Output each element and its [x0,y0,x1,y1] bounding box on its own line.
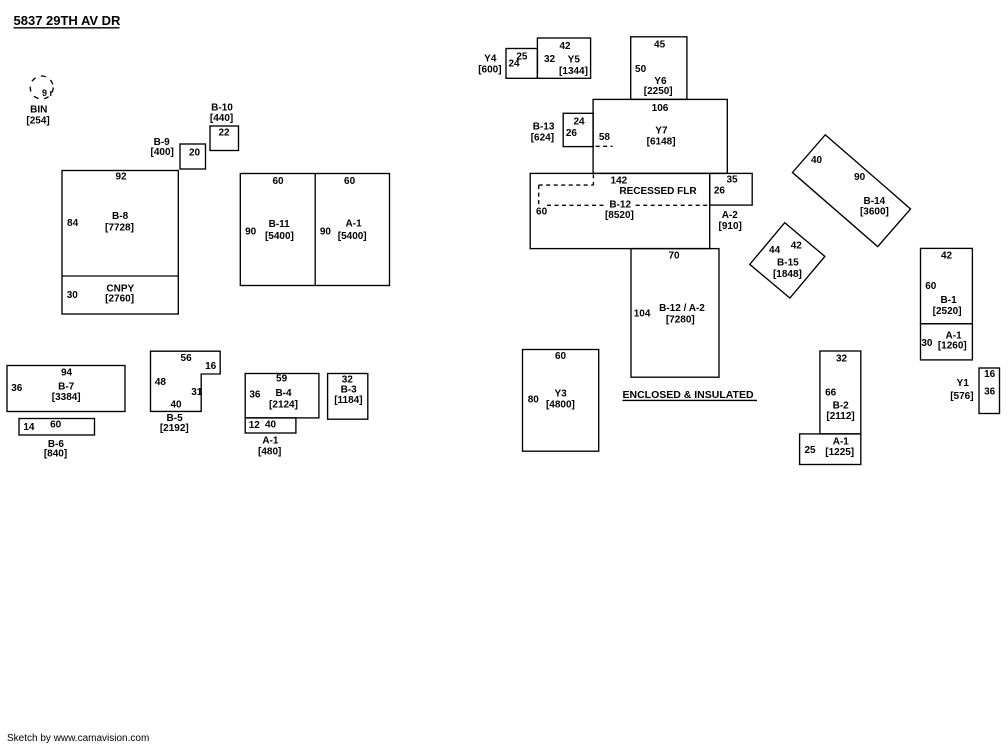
svg-text:[2250]: [2250] [644,86,673,97]
svg-text:BIN: BIN [30,105,47,116]
svg-text:31: 31 [191,387,203,398]
svg-text:60: 60 [536,206,548,217]
svg-text:80: 80 [528,394,540,405]
svg-text:[1225]: [1225] [825,447,854,458]
svg-text:45: 45 [654,40,666,51]
svg-text:[624]: [624] [531,132,554,143]
svg-text:[2112]: [2112] [826,411,854,422]
svg-text:9 r: 9 r [42,88,54,98]
svg-text:90: 90 [320,226,332,237]
svg-text:40: 40 [170,399,182,410]
svg-text:66: 66 [825,387,837,398]
svg-text:14: 14 [23,422,35,433]
svg-text:[4800]: [4800] [546,399,575,410]
svg-text:B-13: B-13 [533,121,555,132]
svg-text:A-2: A-2 [722,210,739,221]
svg-text:RECESSED FLR: RECESSED FLR [619,186,697,197]
svg-text:[2192]: [2192] [160,423,189,434]
svg-text:58: 58 [599,132,611,143]
svg-text:32: 32 [836,354,848,365]
svg-text:B-11: B-11 [269,219,291,230]
svg-text:[3384]: [3384] [52,392,81,403]
svg-text:[910]: [910] [719,221,742,232]
svg-text:[7280]: [7280] [666,314,695,325]
svg-text:A-1: A-1 [833,436,850,447]
svg-text:[254]: [254] [26,116,49,127]
svg-text:60: 60 [272,176,284,187]
svg-text:B-3: B-3 [341,385,358,396]
svg-text:Sketch by www.camavision.com: Sketch by www.camavision.com [7,733,149,744]
svg-text:35: 35 [726,175,738,186]
svg-text:42: 42 [791,241,803,252]
svg-text:Y5: Y5 [568,55,581,66]
svg-text:50: 50 [635,64,647,75]
svg-text:[1344]: [1344] [559,66,588,77]
svg-text:90: 90 [245,226,257,237]
svg-text:[2520]: [2520] [933,306,962,317]
svg-text:44: 44 [769,245,781,256]
svg-text:[1184]: [1184] [334,395,362,406]
svg-text:[840]: [840] [44,449,67,460]
svg-text:142: 142 [611,176,628,187]
svg-text:36: 36 [11,383,23,394]
svg-text:26: 26 [714,185,726,196]
svg-text:Y4: Y4 [484,54,497,65]
svg-text:B-12 / A-2: B-12 / A-2 [659,303,705,314]
svg-text:Y7: Y7 [655,126,668,137]
svg-text:ENCLOSED & INSULATED: ENCLOSED & INSULATED [623,389,754,401]
svg-text:104: 104 [634,308,651,319]
svg-text:16: 16 [984,369,996,380]
svg-text:[1260]: [1260] [938,341,967,352]
svg-text:[3600]: [3600] [860,206,889,217]
svg-text:20: 20 [189,148,201,159]
svg-text:B-2: B-2 [833,401,850,412]
svg-text:[2760]: [2760] [105,293,134,304]
svg-text:Y3: Y3 [554,388,567,399]
svg-text:B-4: B-4 [275,388,292,399]
svg-text:B-12: B-12 [609,199,631,210]
svg-text:32: 32 [544,54,556,65]
svg-text:[480]: [480] [258,446,281,457]
svg-text:16: 16 [205,361,217,372]
svg-text:[6148]: [6148] [647,137,676,148]
svg-text:24: 24 [508,58,520,69]
svg-text:A-1: A-1 [346,219,363,230]
svg-text:22: 22 [218,127,230,138]
svg-text:A-1: A-1 [262,436,279,447]
svg-text:40: 40 [265,419,277,430]
svg-text:70: 70 [668,251,680,262]
svg-text:12: 12 [249,420,261,431]
svg-text:48: 48 [155,377,167,388]
svg-text:59: 59 [276,374,288,385]
svg-text:106: 106 [652,103,669,114]
svg-text:60: 60 [344,176,356,187]
svg-text:[576]: [576] [950,391,973,402]
svg-text:60: 60 [555,351,567,362]
svg-text:24: 24 [573,117,585,128]
svg-text:[7728]: [7728] [105,223,134,234]
svg-text:60: 60 [925,281,937,292]
svg-text:56: 56 [181,353,193,364]
svg-text:90: 90 [854,172,866,183]
svg-text:Y1: Y1 [957,378,970,389]
svg-text:[2124]: [2124] [269,399,298,410]
svg-text:92: 92 [115,172,127,183]
svg-text:B-1: B-1 [941,295,958,306]
svg-text:[5400]: [5400] [338,231,367,242]
svg-text:36: 36 [984,386,996,397]
svg-text:30: 30 [67,290,79,301]
svg-text:25: 25 [804,445,816,456]
svg-text:42: 42 [559,41,571,52]
svg-text:42: 42 [941,250,953,261]
svg-text:[600]: [600] [478,64,501,75]
svg-text:94: 94 [61,368,73,379]
svg-text:[5400]: [5400] [265,231,294,242]
svg-text:5837 29TH AV DR: 5837 29TH AV DR [14,13,122,28]
svg-text:26: 26 [566,128,578,139]
svg-text:84: 84 [67,218,79,229]
svg-text:[8520]: [8520] [605,210,634,221]
svg-text:B-15: B-15 [777,258,799,269]
svg-text:30: 30 [921,338,933,349]
svg-text:60: 60 [50,419,62,430]
svg-text:B-8: B-8 [112,211,129,222]
svg-text:[400]: [400] [151,147,174,158]
svg-text:[1848]: [1848] [773,269,802,280]
svg-text:[440]: [440] [210,113,233,124]
svg-text:36: 36 [249,389,261,400]
svg-text:40: 40 [811,155,823,166]
svg-text:B-7: B-7 [58,382,75,393]
